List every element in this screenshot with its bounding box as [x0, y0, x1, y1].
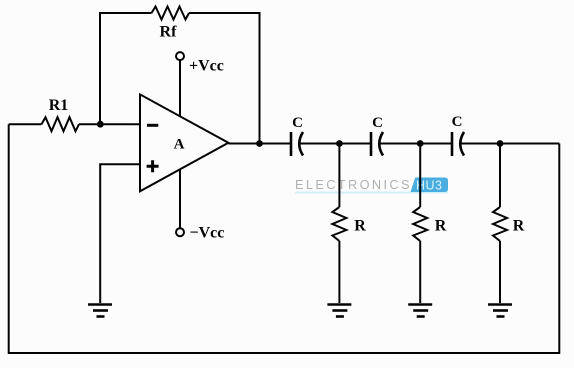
resistor R (stage 1) [332, 207, 346, 241]
node: stage 1 junction [336, 140, 343, 147]
op-amp non-inverting input marker (+) [147, 160, 159, 172]
wire: R to ground (stage 1) [338, 241, 340, 303]
capacitor C1 [291, 132, 303, 156]
svg-text:R: R [354, 218, 366, 235]
svg-text:R: R [435, 218, 447, 235]
node: stage 2 junction [417, 140, 424, 147]
wire: R to ground (stage 2) [419, 241, 421, 303]
watermark ElectronicsHub logo [295, 177, 448, 194]
capacitor C3 [452, 132, 464, 156]
resistor R1 [42, 117, 80, 131]
ground (stage 2) [408, 305, 432, 317]
capacitor C2 [371, 132, 383, 156]
wire: +Vcc to op-amp [179, 60, 181, 117]
svg-text:−Vcc: −Vcc [190, 225, 225, 242]
svg-text:R1: R1 [49, 97, 69, 114]
resistor Rf [152, 7, 190, 20]
svg-text:C: C [372, 115, 383, 131]
wire: C3 to feedback corner [460, 143, 559, 145]
svg-text:A: A [174, 137, 185, 153]
svg-text:C: C [452, 114, 463, 130]
terminal +Vcc [176, 52, 184, 60]
wire: op-amp output to C1 [228, 143, 291, 145]
op-amp inverting input marker (-) [147, 124, 158, 127]
resistor R (stage 3) [493, 207, 507, 241]
node: inverting input junction [97, 121, 104, 128]
wire: Rf to output node [189, 13, 260, 144]
svg-text:ELECTRONICS: ELECTRONICS [295, 177, 412, 192]
op-amp A [140, 94, 228, 191]
ground (stage 3) [488, 305, 512, 317]
wire: R to ground (stage 3) [499, 241, 501, 303]
ground (stage 1) [327, 305, 351, 317]
svg-text:Rf: Rf [160, 24, 178, 41]
node: output junction [256, 140, 263, 147]
wire: C2 to C3 [379, 143, 452, 145]
wire: non-inverting input to ground [100, 164, 140, 303]
terminal -Vcc [176, 228, 184, 236]
svg-text:R: R [513, 218, 525, 235]
wire: stage 3 node down to R [499, 144, 501, 208]
wire: inverting node up and over to Rf [100, 13, 152, 125]
resistor R (stage 2) [413, 207, 427, 241]
wire: feedback return loop [9, 124, 560, 353]
svg-text:C: C [292, 115, 303, 131]
wire: op-amp to -Vcc [179, 169, 181, 228]
wire: C1 to C2 [299, 143, 371, 145]
wire: stage 1 node down to R [338, 144, 340, 208]
node: stage 3 junction [497, 140, 504, 147]
ground (non-inverting input) [88, 305, 112, 317]
wire: left input segment [9, 123, 42, 125]
svg-text:+Vcc: +Vcc [189, 58, 224, 75]
wire: stage 2 node down to R [419, 144, 421, 208]
wire: R1 to inverting input [79, 123, 140, 125]
